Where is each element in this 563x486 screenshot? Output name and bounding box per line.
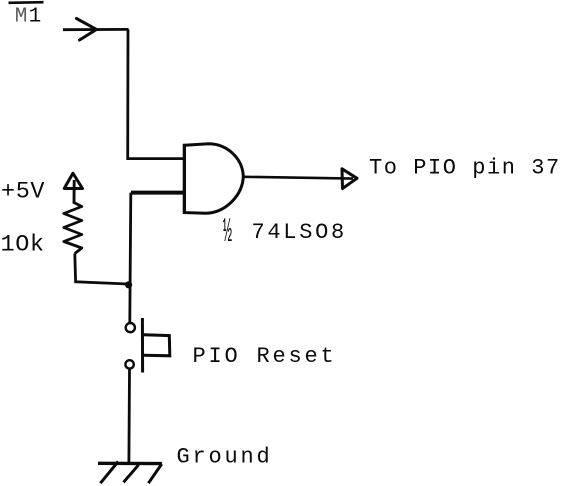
svg-text:1Ok: 1Ok [1, 232, 45, 259]
wire M1 input horizontal [63, 28, 129, 31]
arrowhead at output (to PIO pin 37) [342, 169, 357, 189]
wire junction down to switch top contact [130, 193, 131, 323]
AND gate U1 (74LS08) [184, 144, 243, 214]
wire switch bottom to ground [127, 369, 130, 463]
svg-text:PIO Reset: PIO Reset [193, 344, 337, 369]
power symbol +5V arrow [64, 173, 82, 202]
svg-text:To PIO pin 37: To PIO pin 37 [369, 156, 561, 181]
wire M1 vertical down and to gate top input [128, 29, 184, 158]
wire resistor bottom to junction [75, 254, 128, 285]
resistor R1 10k [64, 202, 82, 254]
svg-text:½: ½ [223, 212, 232, 251]
svg-text:+5V: +5V [1, 179, 45, 206]
svg-text:1: 1 [29, 6, 42, 29]
svg-text:Ground: Ground [177, 445, 273, 470]
junction node dot [125, 281, 132, 288]
wire gate output [243, 177, 353, 179]
svg-text:74LSO8: 74LSO8 [252, 220, 347, 245]
svg-text:M: M [15, 6, 28, 29]
wire gate lower input [131, 191, 184, 195]
node M1 label [9, 2, 44, 28]
label 1/2 74LS08 [223, 212, 347, 251]
ground symbol [98, 462, 162, 484]
arrowhead on M1 wire [77, 19, 97, 41]
pushbutton switch S1 (PIO Reset) [125, 318, 169, 373]
